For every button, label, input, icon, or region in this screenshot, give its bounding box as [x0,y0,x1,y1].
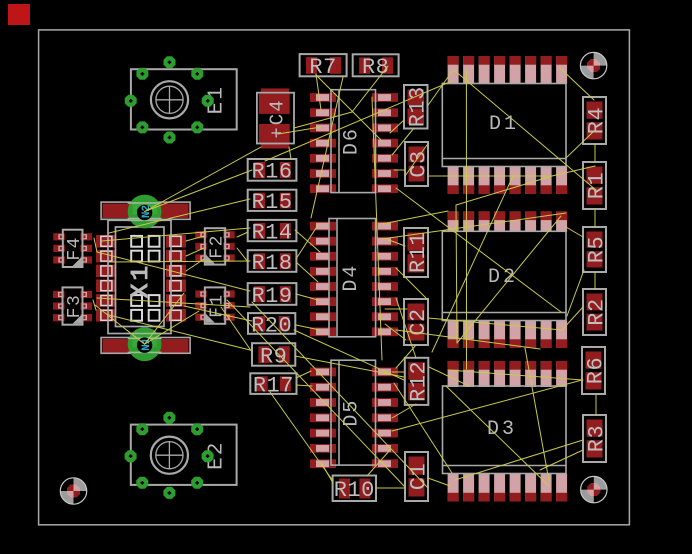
svg-text:R17: R17 [253,373,294,398]
airwire [145,147,261,212]
airwire [294,330,404,380]
airwire [540,450,583,470]
airwire [186,236,204,241]
svg-text:F4: F4 [65,236,85,261]
airwire [455,440,583,480]
board outline [39,30,630,525]
resistor R7 [300,54,347,80]
airwire [396,330,540,349]
airwire [552,166,595,176]
capacitor C1 [405,452,431,501]
airwire [525,348,549,481]
airwire [367,450,390,476]
airwire [97,252,250,291]
airwire [296,325,320,330]
airwire [145,293,184,344]
airwire [237,232,248,237]
airwire [295,356,404,377]
airwire [270,392,333,481]
airwire [428,70,454,106]
airwire [566,227,583,237]
svg-text:D4: D4 [340,264,363,292]
airwire [94,238,97,252]
airwire [316,75,381,140]
airwire [295,230,320,252]
airwires ratsnest [93,66,596,488]
airwire [93,300,96,310]
connector X1 bottom pad bar [101,338,190,354]
part F1 [195,287,234,323]
svg-text:X1: X1 [126,263,156,298]
resistor R2 [583,289,609,335]
svg-text:D6: D6 [341,127,364,155]
fiducial mark bottom-right [581,476,607,502]
airwire [385,308,407,310]
fiducial mark top-right [580,52,606,78]
IC D1 [442,56,567,194]
airwire [296,294,318,300]
airwire [454,70,596,190]
airwire [95,305,145,344]
airwire [457,216,561,343]
svg-text:R6: R6 [583,357,608,384]
svg-text:R1: R1 [584,172,609,199]
part F3 [53,287,92,324]
svg-text:R8: R8 [362,55,389,80]
airwire [322,464,333,483]
airwire [396,298,416,358]
airwire [389,240,405,246]
airwire [562,307,583,330]
airwire [396,268,428,300]
airwire [145,311,199,344]
part F4 [53,230,92,267]
airwire [372,97,382,360]
airwire [109,261,250,262]
airwire [567,270,584,316]
airwire [428,478,450,486]
airwire [446,386,549,486]
resistor R3 [583,415,609,462]
via N1 [128,327,162,361]
resistor R13 [404,85,431,129]
IC D2 [442,211,567,348]
svg-text:R3: R3 [584,425,609,452]
svg-text:R11: R11 [406,232,431,273]
svg-text:R12: R12 [406,361,431,402]
svg-text:R18: R18 [251,251,292,276]
svg-text:R7: R7 [309,55,336,80]
airwire [237,248,248,262]
pushbutton E2 [125,412,237,499]
airwire [296,385,312,386]
svg-text:R14: R14 [251,220,292,245]
svg-text:N1: N1 [141,337,153,351]
capacitor C4 [257,88,294,148]
airwire [221,307,252,352]
resistor R15 [248,190,297,215]
part F2 [195,228,234,264]
airwire [396,345,416,368]
airwire [432,176,513,352]
svg-text:R13: R13 [406,86,431,127]
airwire [97,298,250,307]
resistor R9 [252,343,295,369]
airwire [382,211,448,224]
svg-text:R20: R20 [251,313,292,338]
svg-text:R19: R19 [251,284,292,309]
svg-text:R2: R2 [584,298,609,325]
airwire [465,70,467,369]
airwire [428,175,553,177]
resistor R5 [583,227,609,272]
capacitor C3 [405,142,431,186]
airwire [184,306,252,321]
svg-text:R9: R9 [260,344,287,369]
IC D4 [310,219,398,337]
resistor R6 [582,347,608,394]
svg-text:D2: D2 [488,266,518,289]
airwire [456,205,457,343]
airwire [278,127,321,134]
IC D5 [310,360,398,468]
airwire [390,120,404,133]
svg-text:C1: C1 [406,463,431,490]
capacitor C2 [404,299,431,345]
airwire [186,248,204,256]
svg-text:R16: R16 [251,160,292,185]
resistor R18 [248,250,297,276]
resistor R11 [404,228,431,277]
airwire [396,188,561,312]
airwire [145,170,252,212]
airwire [289,147,291,159]
airwire [186,259,204,271]
airwire [560,68,594,100]
svg-text:R4: R4 [584,107,609,134]
airwire [385,324,406,340]
pushbutton E1 [125,56,237,143]
svg-text:R10: R10 [334,478,375,503]
airwire [382,213,566,239]
airwire [392,380,582,431]
red UI swatch top-left [8,4,30,25]
fiducial mark bottom-left [60,478,86,504]
airwire [311,77,343,218]
airwire [227,300,405,487]
resistor R19 [248,283,297,309]
svg-text:F2: F2 [208,234,228,259]
airwire [429,367,469,386]
resistor R14 [248,220,297,245]
airwire [376,487,405,489]
airwire [265,81,452,161]
resistor R10 [333,476,376,504]
svg-text:C3: C3 [406,150,431,177]
airwire [252,302,428,488]
airwire [296,225,318,259]
airwire [392,371,405,373]
airwire [594,209,596,227]
resistor R8 [353,54,399,80]
airwire [394,383,452,473]
airwire [352,66,388,112]
airwire [394,169,405,171]
resistor R20 [248,313,295,338]
airwire [428,318,562,330]
resistor R17 [250,373,296,398]
connector X1 top pad bar [101,202,190,219]
connector X1 body [96,220,186,333]
airwire [594,144,596,162]
IC D6 [310,90,398,193]
resistor R16 [248,159,297,185]
IC D3 [443,361,568,502]
airwire [392,404,416,418]
airwire [456,176,552,205]
via N2 [128,195,162,229]
airwire [296,371,311,378]
airwire [405,145,427,176]
airwire [296,262,318,282]
resistor R4 [583,97,609,144]
airwire [448,370,583,380]
airwire [109,199,250,233]
airwire [316,74,321,110]
airwire [294,112,352,128]
resistor R12 [405,358,432,405]
svg-text:D1: D1 [489,113,519,136]
airwire [595,394,597,415]
resistor R1 [583,162,609,209]
svg-text:R15: R15 [251,190,292,215]
airwire [594,272,596,289]
svg-text:R5: R5 [584,236,609,263]
svg-text:N2: N2 [141,205,153,218]
airwire [109,315,250,350]
airwire [392,128,414,155]
airwire [102,228,250,241]
airwire [566,132,593,158]
svg-text:F3: F3 [65,294,85,319]
